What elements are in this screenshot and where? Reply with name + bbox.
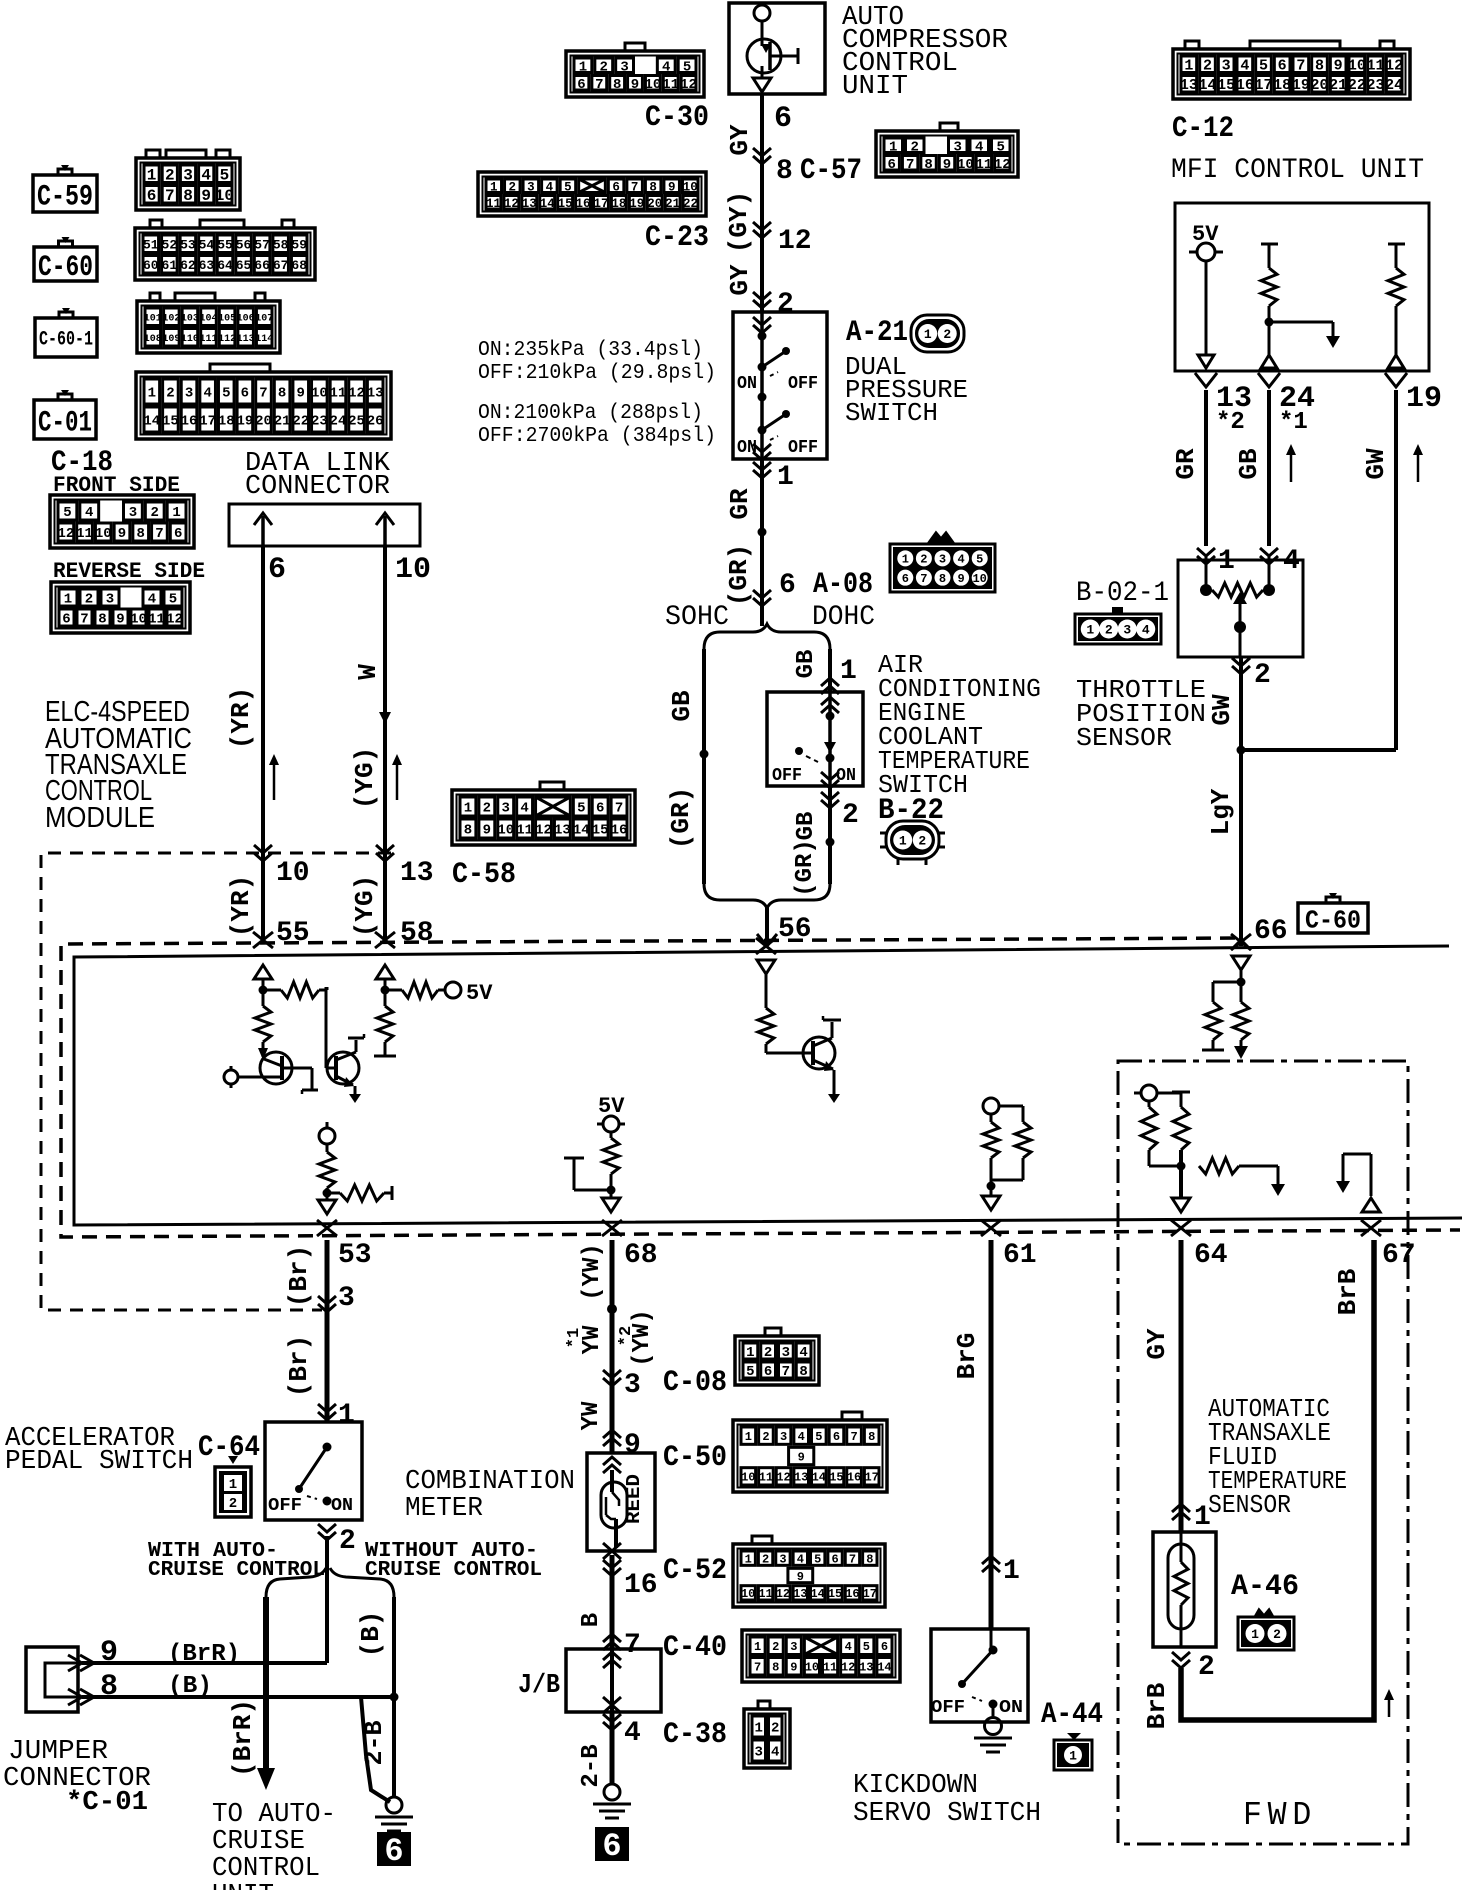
svg-text:ON: ON bbox=[331, 1496, 353, 1516]
MFI pin 24 chevron bbox=[1258, 373, 1280, 387]
svg-text:53: 53 bbox=[338, 1240, 372, 1271]
svg-text:7: 7 bbox=[80, 612, 88, 628]
svg-text:C-40: C-40 bbox=[663, 1631, 727, 1665]
text pin 61 bbox=[1003, 1240, 1037, 1271]
junction dot GW LgY bbox=[1237, 746, 1246, 755]
text C-12 bbox=[1172, 112, 1234, 146]
text pin 12 bbox=[778, 226, 812, 257]
module pin 61 bus chevron bbox=[981, 1220, 1001, 1236]
svg-text:10: 10 bbox=[741, 1587, 755, 1601]
svg-text:101: 101 bbox=[144, 313, 162, 324]
svg-text:10: 10 bbox=[1348, 58, 1366, 75]
wire BrG bbox=[989, 1240, 994, 1629]
svg-text:64: 64 bbox=[1194, 1240, 1228, 1271]
svg-text:52: 52 bbox=[162, 237, 178, 252]
svg-text:16: 16 bbox=[1236, 77, 1254, 94]
label (Br) 1 bbox=[284, 1245, 314, 1307]
connector C-59 pin table bbox=[136, 150, 240, 210]
svg-text:7: 7 bbox=[595, 77, 603, 93]
svg-text:C-59: C-59 bbox=[37, 180, 93, 214]
svg-text:8: 8 bbox=[464, 823, 472, 839]
svg-text:OFF: OFF bbox=[931, 1698, 965, 1718]
svg-text:2: 2 bbox=[229, 1496, 237, 1512]
svg-text:12: 12 bbox=[1385, 58, 1403, 75]
text AUTOMATIC TRANSAXLE FLUID TEMPERATURE SENSOR bbox=[1208, 1394, 1347, 1520]
text pin 2 accel bbox=[339, 1526, 356, 1557]
svg-text:2: 2 bbox=[943, 327, 951, 342]
svg-text:10: 10 bbox=[130, 612, 147, 628]
text pin 1 ECTS bbox=[840, 656, 857, 687]
wire 2-B branch bbox=[361, 1697, 390, 1802]
label 5V at pin 58 bbox=[466, 981, 493, 1006]
svg-text:(GR): (GR) bbox=[666, 787, 696, 849]
label GR bbox=[725, 488, 755, 520]
svg-text:3: 3 bbox=[790, 1640, 797, 1654]
svg-text:2: 2 bbox=[1198, 1652, 1215, 1683]
text C-57 bbox=[800, 154, 862, 188]
svg-text:102: 102 bbox=[162, 313, 180, 324]
svg-text:5: 5 bbox=[863, 1640, 870, 1654]
text WITHOUT AUTO-CRUISE CONTROL bbox=[365, 1540, 542, 1582]
svg-text:11: 11 bbox=[823, 1661, 837, 1675]
svg-text:2: 2 bbox=[339, 1526, 356, 1557]
transistor Q2 bbox=[326, 987, 364, 1103]
text pin 9 jumper bbox=[100, 1636, 118, 1670]
text C-40 bbox=[663, 1631, 727, 1665]
transistor in compressor unit bbox=[747, 5, 798, 92]
svg-text:6: 6 bbox=[888, 157, 896, 173]
svg-text:9: 9 bbox=[957, 572, 964, 586]
direction arrow left bbox=[269, 754, 279, 800]
svg-text:56: 56 bbox=[778, 914, 812, 945]
svg-text:11: 11 bbox=[330, 386, 347, 402]
svg-text:67: 67 bbox=[1382, 1240, 1416, 1271]
svg-text:YW: YW bbox=[578, 1401, 605, 1430]
svg-text:65: 65 bbox=[236, 258, 252, 273]
module pin 56 chevron bbox=[756, 938, 776, 954]
svg-text:8: 8 bbox=[100, 1670, 118, 1704]
label B wire bbox=[578, 1613, 605, 1627]
svg-text:10: 10 bbox=[805, 1661, 819, 1675]
text pin 8 jumper bbox=[100, 1670, 118, 1704]
svg-text:12: 12 bbox=[348, 386, 365, 402]
svg-text:2: 2 bbox=[85, 592, 93, 608]
module pin 67 bus chevron bbox=[1361, 1220, 1381, 1236]
chevron below C-64 bbox=[318, 1524, 336, 1540]
label (BrR) horizontal bbox=[168, 1641, 240, 1668]
chevron C-xx crossing Br bbox=[318, 1296, 336, 1312]
svg-text:4: 4 bbox=[1142, 623, 1150, 638]
MFI pin 13 chevron bbox=[1195, 373, 1217, 387]
svg-text:11: 11 bbox=[662, 77, 679, 93]
svg-text:2: 2 bbox=[918, 834, 926, 849]
label (B) vertical bbox=[356, 1611, 386, 1658]
svg-text:15: 15 bbox=[592, 823, 609, 839]
svg-text:10: 10 bbox=[215, 187, 234, 205]
svg-text:58: 58 bbox=[273, 237, 289, 252]
svg-text:COMBINATION: COMBINATION bbox=[405, 1467, 575, 1497]
dual pressure switch internals bbox=[753, 312, 790, 460]
svg-text:103: 103 bbox=[181, 313, 199, 324]
svg-text:6: 6 bbox=[241, 386, 249, 402]
svg-text:12: 12 bbox=[778, 226, 812, 257]
svg-text:CRUISE CONTROL: CRUISE CONTROL bbox=[365, 1559, 542, 1582]
svg-text:53: 53 bbox=[180, 237, 196, 252]
text pin 2 ECTS bbox=[842, 800, 859, 831]
svg-text:13: 13 bbox=[400, 858, 434, 889]
svg-text:12: 12 bbox=[776, 1587, 790, 1601]
svg-text:16: 16 bbox=[611, 823, 628, 839]
module pin 61 internal circuit bbox=[982, 1098, 1031, 1210]
svg-text:9: 9 bbox=[297, 386, 305, 402]
chevron C-57 crossing bbox=[753, 148, 771, 164]
label BrG bbox=[952, 1333, 982, 1380]
svg-text:6: 6 bbox=[831, 1552, 838, 1566]
svg-text:7: 7 bbox=[920, 572, 927, 586]
chevron below A-21 bbox=[753, 462, 771, 478]
svg-text:GB: GB bbox=[793, 650, 820, 679]
label GB SOHC bbox=[667, 690, 697, 722]
chevron A-21 crossing bbox=[753, 292, 771, 308]
svg-text:114: 114 bbox=[255, 334, 273, 345]
svg-text:4: 4 bbox=[797, 1552, 804, 1566]
text pin 8 bbox=[776, 156, 793, 187]
svg-text:8: 8 bbox=[924, 157, 932, 173]
svg-text:1: 1 bbox=[172, 505, 180, 521]
svg-text:GY: GY bbox=[725, 264, 755, 296]
svg-text:13: 13 bbox=[522, 197, 537, 211]
svg-text:1: 1 bbox=[777, 462, 794, 493]
module pin 56 bus chevron bbox=[757, 934, 777, 946]
svg-text:C-30: C-30 bbox=[645, 101, 709, 135]
svg-text:6: 6 bbox=[596, 801, 604, 817]
svg-text:63: 63 bbox=[199, 258, 215, 273]
svg-text:12: 12 bbox=[994, 157, 1011, 173]
text pin 58 bbox=[400, 918, 434, 949]
wire BrB return bbox=[1181, 1240, 1374, 1720]
svg-text:8: 8 bbox=[98, 612, 106, 628]
text pin 6 A-08 bbox=[779, 570, 796, 601]
svg-text:61: 61 bbox=[162, 258, 178, 273]
text C-50 bbox=[663, 1441, 727, 1475]
chevron C-52 crossing bbox=[603, 1560, 621, 1576]
wire 2-B meter bbox=[610, 1712, 615, 1784]
svg-text:C-64: C-64 bbox=[198, 1431, 260, 1465]
connector A-46 icon bbox=[1238, 1610, 1294, 1650]
connector label C-60-1 bbox=[35, 308, 97, 357]
connector A-08 icon bbox=[890, 533, 995, 592]
label W bbox=[353, 664, 383, 680]
text pin 66 bbox=[1254, 916, 1288, 947]
chevron C-23 crossing bbox=[753, 222, 771, 238]
svg-text:4: 4 bbox=[520, 801, 528, 817]
svg-text:10: 10 bbox=[957, 157, 974, 173]
svg-text:24: 24 bbox=[1385, 77, 1403, 94]
text WITH AUTO-CRUISE CONTROL bbox=[148, 1540, 325, 1582]
svg-text:SWITCH: SWITCH bbox=[845, 398, 938, 428]
module pin 55 chevron bbox=[253, 932, 273, 948]
svg-text:10: 10 bbox=[311, 386, 328, 402]
wire to pin 55 bbox=[261, 853, 265, 940]
svg-text:6: 6 bbox=[764, 1364, 772, 1380]
text C-08 bbox=[663, 1366, 727, 1400]
wire 8 B horizontal bbox=[82, 1693, 399, 1702]
label (YR) 2 bbox=[226, 875, 256, 937]
text B-22 bbox=[878, 794, 944, 828]
wire YW pin 68 down bbox=[610, 1240, 615, 1453]
svg-text:14: 14 bbox=[877, 1661, 891, 1675]
text pin 1 accel bbox=[338, 1400, 355, 1431]
svg-text:13: 13 bbox=[794, 1471, 808, 1485]
svg-text:15: 15 bbox=[828, 1587, 842, 1601]
dual pressure switch box bbox=[733, 312, 827, 459]
text OFF ON ECTS bbox=[772, 766, 856, 786]
svg-text:KICKDOWN: KICKDOWN bbox=[853, 1771, 978, 1801]
junction block J/B box bbox=[566, 1649, 661, 1712]
text pin 19 bbox=[1406, 382, 1442, 416]
svg-text:20: 20 bbox=[647, 197, 662, 211]
svg-text:4: 4 bbox=[957, 553, 964, 567]
connector C-58 chevron pin 10 bbox=[254, 845, 272, 861]
svg-text:18: 18 bbox=[1273, 77, 1291, 94]
svg-text:2: 2 bbox=[1273, 1627, 1281, 1642]
wire B meter to JB bbox=[610, 1555, 615, 1649]
label *2 (YW) bbox=[617, 1309, 656, 1367]
svg-text:C-58: C-58 bbox=[452, 858, 516, 892]
text pin 3 meter bbox=[624, 1370, 641, 1401]
svg-text:12: 12 bbox=[504, 197, 519, 211]
svg-text:11: 11 bbox=[76, 526, 93, 542]
label GR wire bbox=[1171, 448, 1201, 480]
svg-text:UNIT: UNIT bbox=[212, 1881, 274, 1890]
connector C-30 pin table bbox=[566, 43, 704, 97]
svg-text:6: 6 bbox=[612, 180, 620, 194]
svg-text:20: 20 bbox=[255, 414, 272, 430]
svg-text:CRUISE: CRUISE bbox=[212, 1827, 305, 1857]
svg-text:OFF:210kPa (29.8psl): OFF:210kPa (29.8psl) bbox=[478, 362, 716, 385]
svg-text:BrG: BrG bbox=[952, 1333, 982, 1380]
svg-text:12: 12 bbox=[680, 77, 697, 93]
svg-text:(Br): (Br) bbox=[284, 1335, 314, 1397]
text pin 1 A-46 bbox=[1194, 1502, 1211, 1533]
svg-text:4: 4 bbox=[85, 505, 93, 521]
svg-text:10: 10 bbox=[972, 572, 986, 586]
svg-text:GY: GY bbox=[725, 124, 755, 156]
svg-text:2: 2 bbox=[483, 801, 491, 817]
svg-text:C-01: C-01 bbox=[38, 406, 92, 440]
svg-text:7: 7 bbox=[1296, 58, 1305, 75]
svg-text:6: 6 bbox=[881, 1640, 888, 1654]
svg-text:9: 9 bbox=[943, 157, 951, 173]
text pressure spec bbox=[478, 339, 716, 448]
svg-text:17: 17 bbox=[593, 197, 608, 211]
ground meter bbox=[593, 1784, 631, 1818]
MFI pin 19 chevron bbox=[1385, 373, 1407, 387]
text FWD bbox=[1243, 1797, 1317, 1834]
label (B) horizontal bbox=[168, 1673, 212, 1700]
svg-text:4: 4 bbox=[148, 592, 156, 608]
engine coolant temperature switch box bbox=[767, 692, 863, 786]
svg-text:B: B bbox=[578, 1613, 605, 1627]
svg-text:1: 1 bbox=[924, 327, 932, 342]
svg-text:6: 6 bbox=[384, 1833, 403, 1870]
label 2-B meter bbox=[578, 1744, 605, 1787]
svg-text:J/B: J/B bbox=[518, 1671, 560, 1701]
transaxle fluid temperature sensor box bbox=[1153, 1532, 1216, 1647]
chevron C-50 crossing bbox=[603, 1430, 621, 1446]
text pin 7 JB bbox=[624, 1630, 641, 1661]
transistor Q1 bbox=[224, 1042, 318, 1094]
svg-text:11: 11 bbox=[758, 1587, 772, 1601]
svg-text:14: 14 bbox=[1198, 77, 1216, 94]
svg-text:B-02-1: B-02-1 bbox=[1076, 578, 1169, 609]
text DATA LINK CONNECTOR bbox=[245, 449, 391, 502]
text SOHC bbox=[665, 602, 729, 633]
svg-text:GB: GB bbox=[667, 690, 697, 722]
connector A-44 icon bbox=[1054, 1733, 1092, 1770]
svg-text:ON: ON bbox=[737, 438, 757, 458]
svg-text:112: 112 bbox=[218, 334, 236, 345]
reed switch symbol bbox=[601, 1470, 627, 1548]
svg-text:1: 1 bbox=[755, 1721, 763, 1737]
svg-text:4: 4 bbox=[624, 1718, 641, 1749]
text pin 2 A-21 bbox=[777, 289, 794, 320]
text ON OFF row2 bbox=[737, 438, 818, 458]
svg-text:10: 10 bbox=[497, 823, 514, 839]
module pin 67 internal circuit bbox=[1336, 1154, 1380, 1212]
text pin 4 JB bbox=[624, 1718, 641, 1749]
svg-text:2: 2 bbox=[772, 1640, 779, 1654]
wire through JB bbox=[603, 1649, 621, 1713]
svg-text:15: 15 bbox=[558, 197, 573, 211]
text A-08 bbox=[813, 568, 873, 602]
svg-text:9: 9 bbox=[790, 1661, 797, 1675]
svg-text:SOHC: SOHC bbox=[665, 602, 729, 633]
connector C-23 pin table bbox=[478, 172, 706, 216]
svg-text:8: 8 bbox=[137, 526, 145, 542]
chevron ECTS pin 2 bbox=[821, 792, 839, 808]
svg-text:11: 11 bbox=[148, 612, 165, 628]
text pin 1 kickdown bbox=[1003, 1556, 1020, 1587]
svg-text:1: 1 bbox=[840, 656, 857, 687]
kickdown switch internals bbox=[958, 1629, 998, 1709]
svg-text:5: 5 bbox=[169, 592, 177, 608]
svg-text:GB: GB bbox=[793, 812, 820, 841]
svg-text:1: 1 bbox=[899, 834, 907, 849]
svg-text:4: 4 bbox=[546, 180, 554, 194]
svg-text:3: 3 bbox=[185, 386, 193, 402]
module pin 66 internal circuit bbox=[1202, 956, 1250, 1059]
svg-text:19: 19 bbox=[629, 197, 644, 211]
text pin 6 compressor bbox=[774, 102, 792, 136]
svg-text:GW: GW bbox=[1207, 694, 1237, 726]
svg-text:1: 1 bbox=[889, 139, 897, 155]
text THROTTLE POSITION SENSOR bbox=[1076, 675, 1206, 753]
text pin 2 A-46 bbox=[1198, 1652, 1215, 1683]
svg-text:3: 3 bbox=[782, 1345, 790, 1361]
svg-text:9: 9 bbox=[668, 180, 676, 194]
svg-text:ON: ON bbox=[737, 374, 757, 394]
wire GY to A-46 bbox=[1179, 1240, 1184, 1532]
svg-text:2: 2 bbox=[151, 505, 159, 521]
svg-text:10: 10 bbox=[644, 77, 661, 93]
svg-text:10: 10 bbox=[741, 1471, 755, 1485]
svg-text:5: 5 bbox=[746, 1364, 754, 1380]
svg-text:C-60-1: C-60-1 bbox=[39, 329, 93, 352]
svg-text:66: 66 bbox=[254, 258, 270, 273]
svg-text:7: 7 bbox=[259, 386, 267, 402]
svg-text:5V: 5V bbox=[466, 981, 493, 1006]
svg-text:C-60: C-60 bbox=[1305, 905, 1361, 935]
svg-text:6: 6 bbox=[902, 572, 909, 586]
text FRONT SIDE bbox=[53, 473, 180, 498]
text A-46 bbox=[1231, 1570, 1299, 1604]
svg-text:GB: GB bbox=[1234, 448, 1264, 480]
text B-02-1 bbox=[1076, 578, 1169, 609]
label BrB pin 67 bbox=[1333, 1268, 1363, 1315]
svg-text:C-60: C-60 bbox=[38, 251, 93, 285]
label (GY) bbox=[724, 191, 754, 253]
svg-text:21: 21 bbox=[665, 197, 680, 211]
wire (Br) pin 53 to C-64 bbox=[325, 1240, 330, 1422]
svg-text:7: 7 bbox=[849, 1552, 856, 1566]
svg-text:(YW): (YW) bbox=[629, 1309, 656, 1367]
connector C-52 pin table bbox=[733, 1536, 885, 1607]
label (YG) 2 bbox=[350, 875, 380, 937]
svg-text:11: 11 bbox=[486, 197, 501, 211]
svg-text:5: 5 bbox=[815, 1430, 822, 1444]
jumper arrows pin 8 bbox=[68, 1689, 94, 1705]
text C-38 bbox=[663, 1718, 727, 1752]
label GW below TPS bbox=[1207, 694, 1237, 726]
svg-text:1: 1 bbox=[1086, 623, 1094, 638]
svg-text:3: 3 bbox=[183, 167, 193, 185]
svg-text:METER: METER bbox=[405, 1494, 483, 1524]
svg-text:4: 4 bbox=[201, 167, 211, 185]
svg-text:6: 6 bbox=[147, 187, 157, 205]
connector C-08 pin table bbox=[735, 1328, 819, 1385]
svg-text:*2: *2 bbox=[1216, 409, 1245, 436]
svg-text:ON:235kPa (33.4psl): ON:235kPa (33.4psl) bbox=[478, 339, 703, 362]
svg-text:11: 11 bbox=[516, 823, 533, 839]
label GY 2 bbox=[725, 264, 755, 296]
svg-text:13: 13 bbox=[367, 386, 384, 402]
svg-text:ON: ON bbox=[836, 766, 856, 786]
svg-text:MFI CONTROL UNIT: MFI CONTROL UNIT bbox=[1171, 155, 1424, 186]
svg-text:108: 108 bbox=[144, 334, 162, 345]
text pin 2 TPS bbox=[1254, 660, 1271, 691]
text C-52 bbox=[663, 1554, 727, 1588]
connector label C-60 bbox=[34, 237, 97, 285]
text J/B bbox=[518, 1671, 560, 1701]
label GY bbox=[725, 124, 755, 156]
svg-text:2: 2 bbox=[777, 289, 794, 320]
label (YG) bbox=[350, 747, 380, 809]
module dashed notch boundary bbox=[41, 853, 391, 1310]
svg-text:9: 9 bbox=[118, 526, 126, 542]
jumper arrows pin 9 bbox=[68, 1655, 94, 1671]
svg-text:3: 3 bbox=[338, 1283, 355, 1314]
svg-text:A-44: A-44 bbox=[1041, 1698, 1103, 1732]
svg-text:1: 1 bbox=[746, 1345, 754, 1361]
svg-text:23: 23 bbox=[1366, 77, 1384, 94]
label (GR) SOHC bbox=[666, 787, 696, 849]
svg-text:REED: REED bbox=[623, 1474, 645, 1524]
svg-text:54: 54 bbox=[199, 237, 215, 252]
svg-text:16: 16 bbox=[576, 197, 591, 211]
svg-text:14: 14 bbox=[143, 414, 160, 430]
ECTS internals bbox=[795, 692, 839, 788]
